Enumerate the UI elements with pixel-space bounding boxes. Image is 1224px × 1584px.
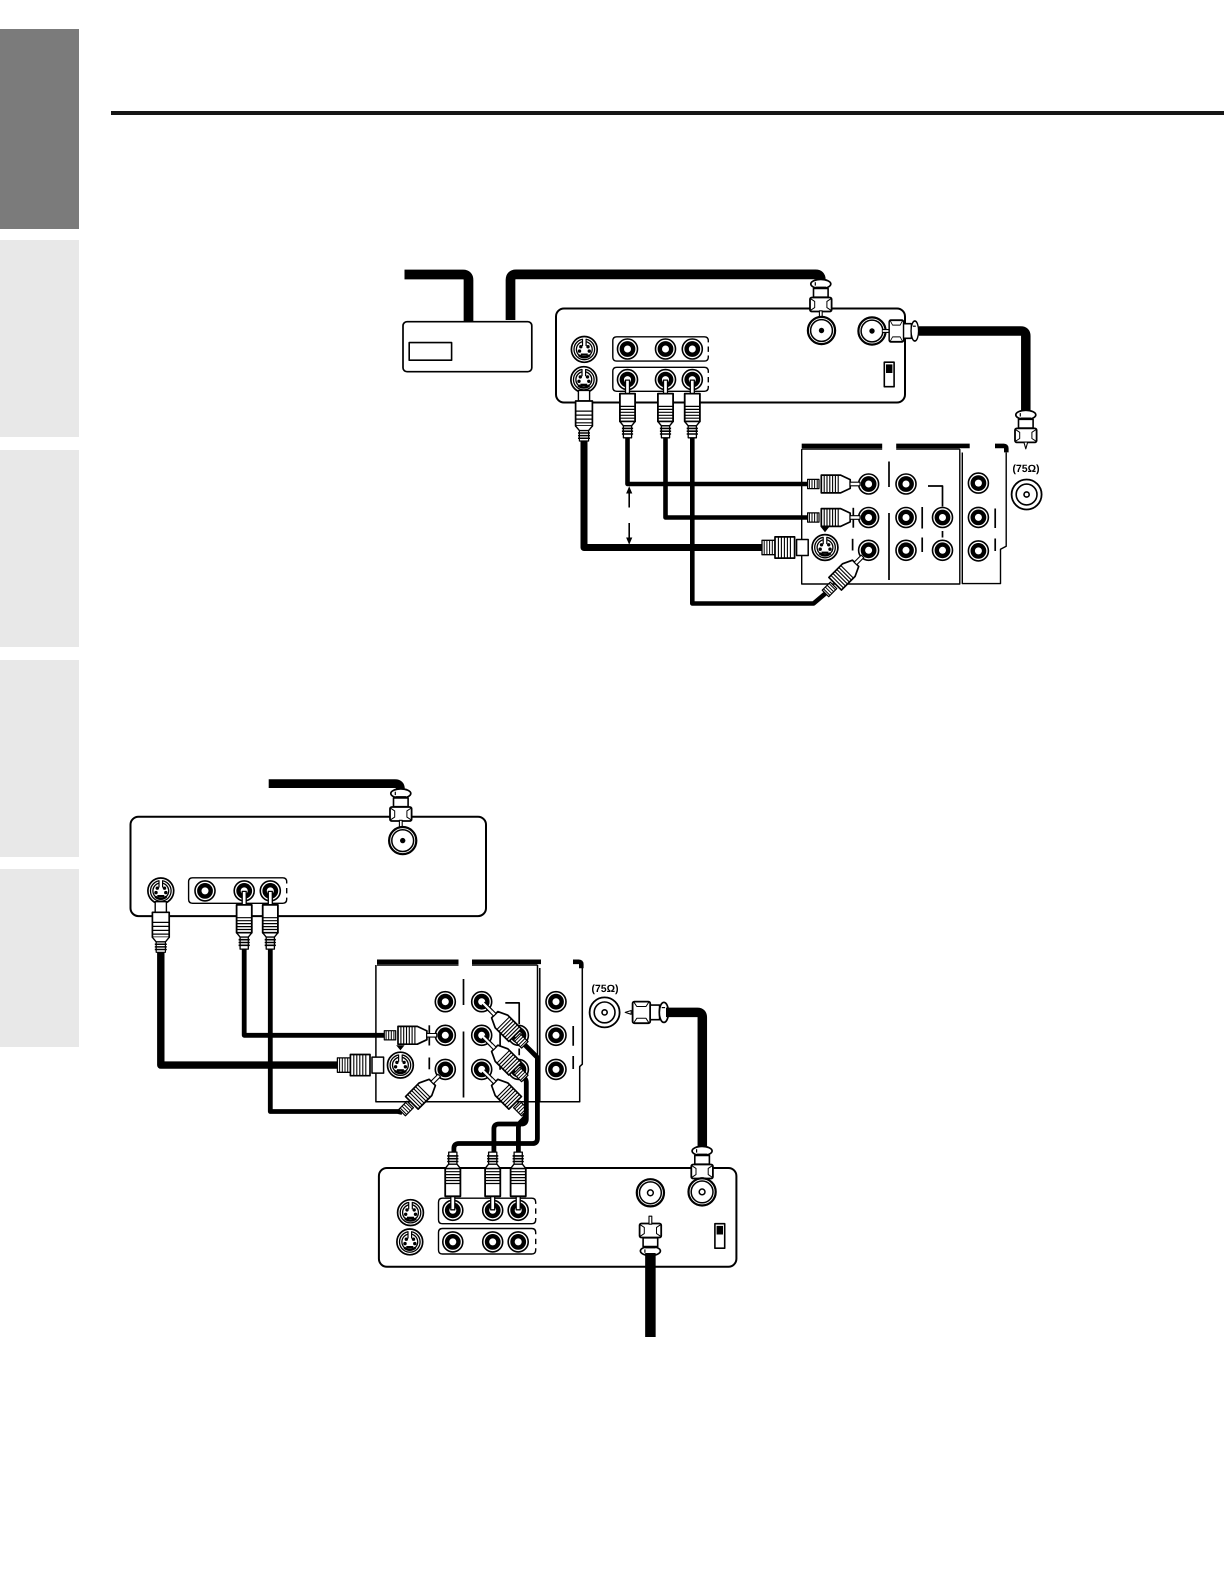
TV 2 S-video marker triangle [396,1045,404,1050]
cable box display window [409,343,451,361]
VCR 3 S-video jack 1 [398,1200,424,1226]
VCR AV jack group 1 [613,337,709,361]
VCR 2 AV out jacks [195,881,215,901]
TV 2 panel main outline [376,965,538,1102]
RCA plug into TV 2 audio in [384,1026,436,1044]
TV 2 panel right section outline [540,968,583,1102]
wire: audio L cable VCR to TV [666,438,809,518]
wire: video cable VCR 2 to TV 2 [270,949,402,1113]
VCR 3 RF jack OUT to TV [689,1178,716,1205]
VCR mode switch [884,362,894,387]
wire: monitor video cable TV 2 to VCR 3 [454,1045,538,1158]
VCR 3 rear panel [379,1168,737,1267]
VCR 3 AV in jacks row 1 [443,1200,463,1220]
S-video plug into TV 2 [337,1055,383,1076]
wire: video cable VCR to TV [628,438,809,484]
TV 2 separator column 1-2 [463,979,465,1098]
TV 2 input jacks right section [546,992,566,1012]
RCA plug on VCR 2 video out [263,891,278,949]
span arrows between cables [628,491,630,540]
wire: S-video cable VCR to TV [584,441,763,548]
TV 2 separator dash left of video jack [428,1058,430,1070]
VCR RF jack OUT to TV [858,317,885,344]
wire: audio R cable VCR to TV [692,438,825,604]
angled RCA plug into TV audio R in [819,550,869,600]
wire: audio cable VCR 2 to TV 2 [244,949,385,1035]
VCR 2 AV jack group [189,878,287,904]
RCA plug on VCR audio R out [685,380,700,438]
wire: antenna feed to VCR 2 [269,784,401,790]
TV 1 input jacks column 1 [859,474,879,494]
RCA plug into TV audio L in [808,509,860,527]
sidebar tab dark (chapter tab) [0,29,79,229]
F connector on VCR 2 antenna input [390,789,412,828]
TV 1 S-video jack [812,535,838,561]
wire: VCR RF out down to TV antenna terminal [919,331,1026,411]
label 75 ohm [1013,464,1039,474]
TV 1 S-video marker triangle [821,527,829,532]
TV 2 input jacks column 1 [435,992,455,1012]
wire: S-video cable VCR 2 to TV 2 [161,952,338,1065]
RCA plug on VCR video out [620,380,635,438]
RCA plug into VCR 3 audio R in [511,1152,526,1210]
cable box [403,322,532,372]
sidebar tab 3 [0,450,79,647]
TV 2 separator dash left of audio jack [428,1025,430,1045]
TV 1 panel top torn edge bars [802,446,1007,453]
F connector into VCR 3 RF out jack [691,1146,713,1185]
TV 1 separator column 1-2 [888,462,890,581]
TV 1 panel main outline [802,449,960,584]
TV 1 input jacks column 2 [896,474,916,494]
TV 1 input jacks column 3 [933,508,953,528]
VCR 2 S-video jack [148,878,174,904]
TV 1 right section dashes [994,509,996,552]
RCA plug into TV video in [808,475,860,493]
VCR S-video jack 2 [571,367,597,393]
header rule [111,111,1224,115]
wire: cable box out to VCR antenna input [511,274,821,320]
TV 2 antenna 75-ohm terminal [590,997,620,1027]
S-video plug into TV S-video in [762,537,808,558]
wire: RF cable TV 2 to VCR 3 [666,1012,702,1146]
F connector from antenna toward VCR 3 [640,1216,662,1255]
label 75 ohm (TV 2) [592,984,618,994]
F connector toward TV 75-ohm terminal [1015,410,1037,449]
TV 1 antenna 75-ohm terminal [1012,480,1042,510]
RCA plug on VCR audio L out [658,380,673,438]
TV 1 separator dash left of audio L jack [852,508,854,528]
wire: monitor audio L cable TV 2 to VCR 3 [494,1078,526,1157]
TV 2 right section dashes [572,1026,574,1069]
F connector on VCR antenna input [810,279,832,318]
sidebar tab 2 [0,240,79,437]
angled RCA plug out of TV 2 monitor audio R [481,1069,531,1119]
angled RCA plug out of TV 2 monitor video [481,1001,531,1051]
VCR AV out jacks row 2 [618,370,638,390]
wire: antenna feed into cable box [405,275,469,322]
TV 2 mono bracket [505,1003,519,1055]
RCA plug on VCR 2 audio out [237,891,252,949]
VCR S-video jack 1 [571,337,597,363]
TV 1 separator dash left of audio R jack [852,539,854,551]
TV 2 input jacks column 2 [472,992,492,1012]
TV 1 separator dashes column 2-3 [921,507,923,552]
TV 1 panel right section outline [962,453,1006,584]
VCR 2 RF jack IN from antenna [389,827,416,854]
TV 2 panel top torn edge bars [377,962,581,969]
TV 2 separator dashes column 2-3 [499,1025,501,1070]
VCR 3 AV jacks row 2 [443,1232,463,1252]
RCA plug into VCR 3 audio L in [485,1152,500,1210]
VCR 3 mode switch [715,1224,725,1249]
angled RCA plug into TV 2 video in [396,1069,446,1119]
F connector on VCR RF out [882,320,918,342]
wire: monitor audio R cable TV 2 to VCR 3 [518,1113,525,1158]
TV 1 mono bracket [928,486,943,538]
VCR 2 rear panel [131,817,487,916]
RCA plug into VCR 3 video in [445,1152,460,1210]
VCR 3 AV jack group 1 [439,1198,536,1224]
TV 2 S-video jack [388,1052,414,1078]
F connector at TV 2 antenna terminal [625,1002,668,1024]
VCR 3 AV jack group 2 [439,1229,536,1255]
S-video plug on VCR S-video jack 2 [576,390,593,441]
angled RCA plug out of TV 2 monitor audio L [481,1035,531,1085]
S-video plug on VCR 2 [152,902,169,953]
TV 1 input jacks right section [968,473,988,493]
sidebar tab 5 [0,869,79,1047]
VCR 3 S-video jack 2 [397,1229,423,1255]
VCR AV jack group 2 [613,367,709,391]
sidebar tab 4 [0,660,79,857]
VCR RF jack IN from antenna [808,317,835,344]
VCR 1 rear panel [556,309,905,403]
wire: antenna stub below VCR 3 [645,1253,656,1337]
VCR AV out jacks row 1 [618,339,638,359]
TV 2 input jacks column 3 [508,1025,528,1045]
VCR 3 RF jack IN from antenna [637,1179,664,1206]
